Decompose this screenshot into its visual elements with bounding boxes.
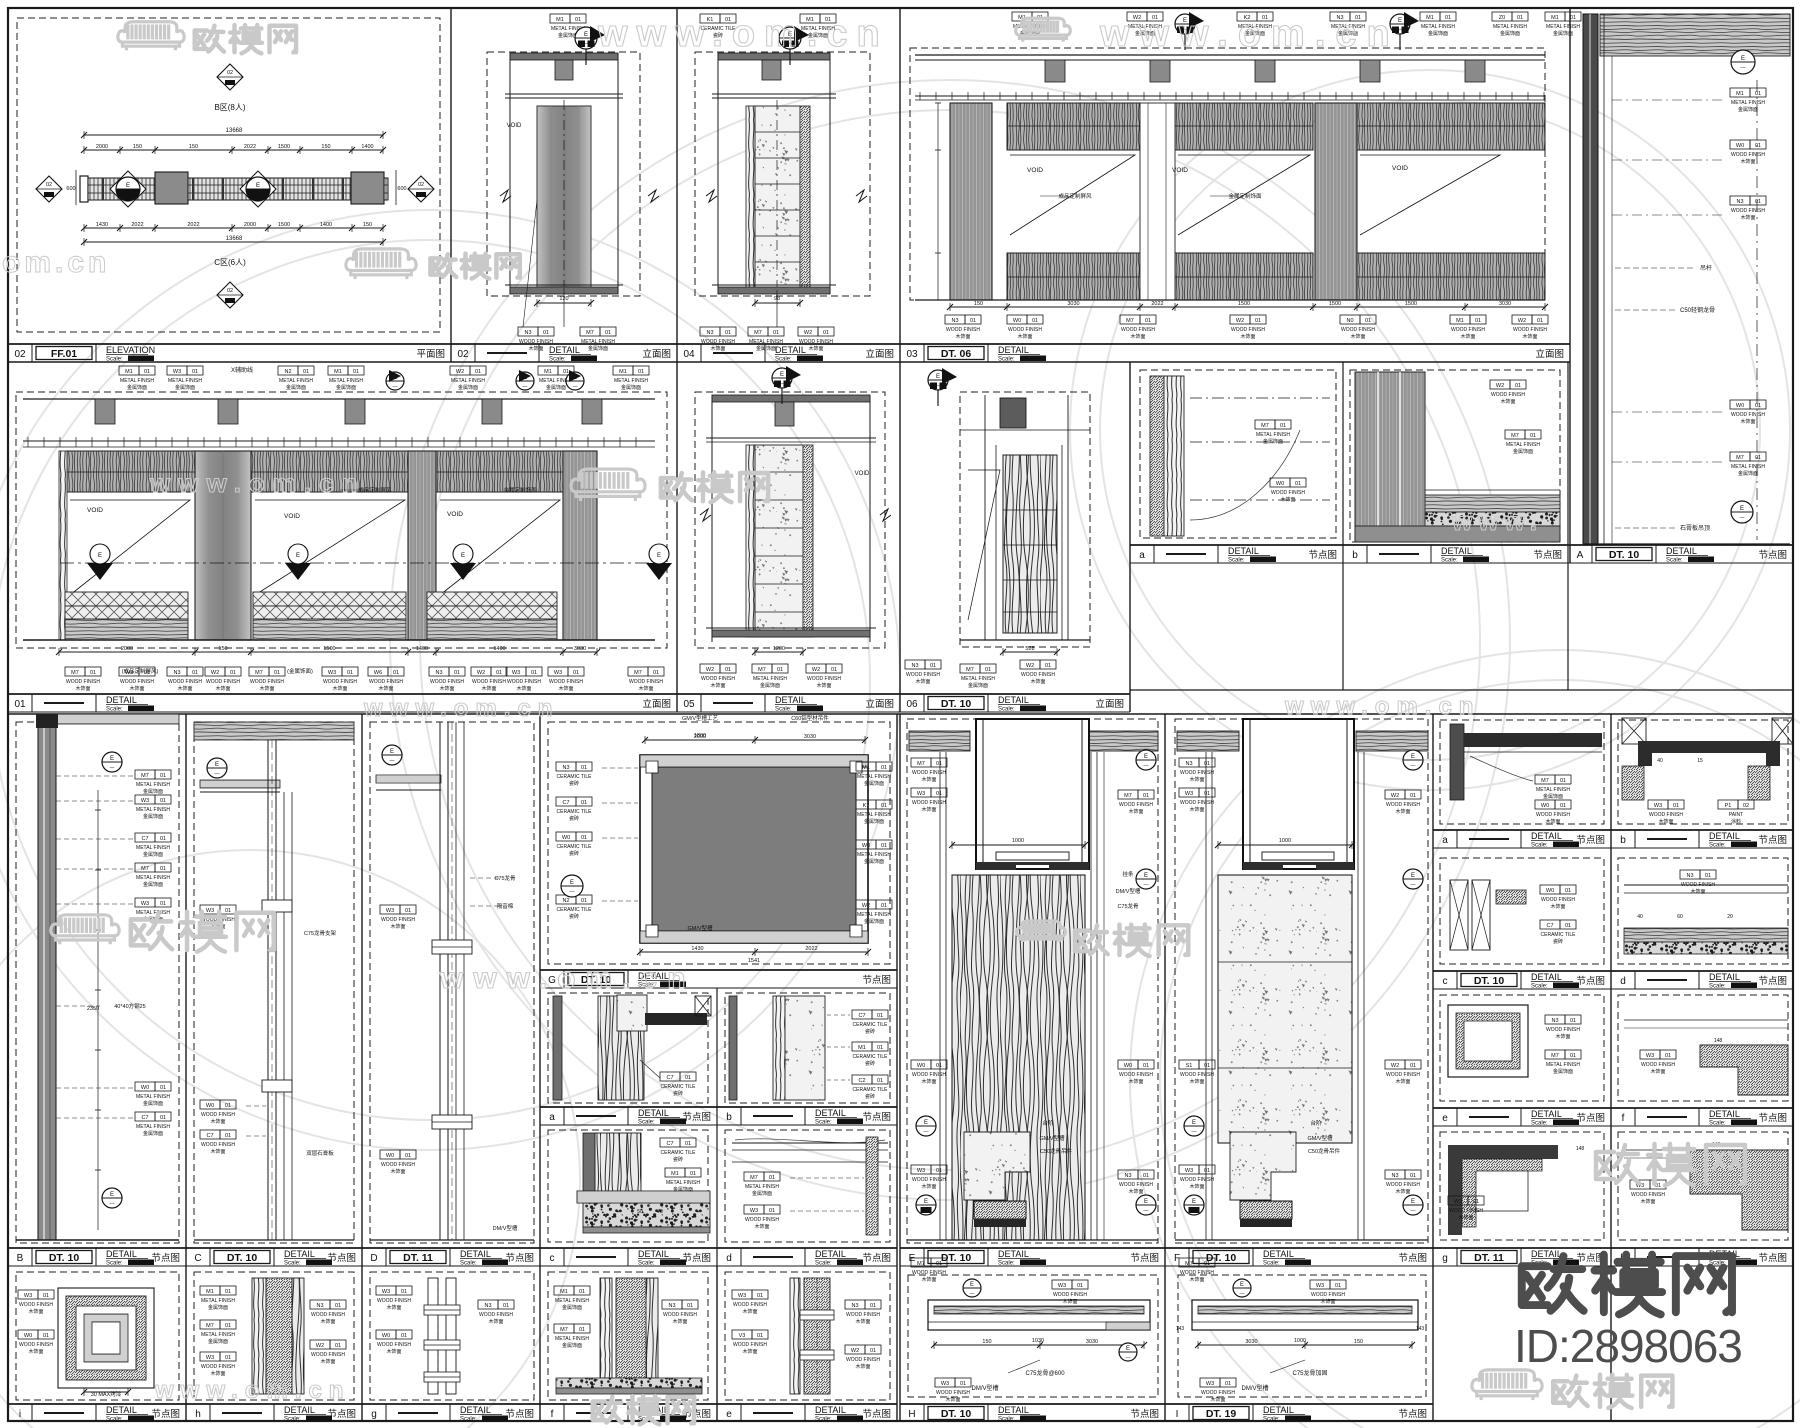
svg-text:节点图: 节点图	[1758, 550, 1787, 561]
svg-text:W0: W0	[862, 843, 870, 849]
svg-text:瓷砖: 瓷砖	[673, 1090, 683, 1097]
svg-text:METAL FINISH: METAL FINISH	[279, 378, 313, 384]
svg-text:木饰面: 木饰面	[516, 685, 531, 692]
panel f4 dashed border	[548, 1272, 708, 1400]
panel 02 dashed border	[487, 52, 640, 296]
svg-text:C7: C7	[666, 1075, 673, 1081]
svg-text:WOOD FINISH: WOOD FINISH	[799, 339, 833, 345]
svg-text:01: 01	[401, 1333, 407, 1339]
svg-text:01: 01	[1673, 803, 1679, 809]
svg-text:METAL FINISH: METAL FINISH	[136, 782, 170, 788]
svg-text:W3: W3	[141, 798, 149, 804]
svg-text:N3: N3	[851, 1303, 858, 1309]
svg-text:WOOD FINISH: WOOD FINISH	[120, 679, 154, 685]
svg-text:01: 01	[1410, 1173, 1416, 1179]
panel h stud section	[252, 1278, 266, 1394]
svg-text:木饰面: 木饰面	[390, 923, 405, 930]
svg-text:05: 05	[683, 699, 695, 710]
svg-text:节点图: 节点图	[1576, 976, 1605, 987]
svg-text:N3: N3	[1391, 1173, 1398, 1179]
svg-text:WOOD FINISH: WOOD FINISH	[745, 1217, 779, 1223]
svg-text:WOOD FINISH: WOOD FINISH	[549, 679, 583, 685]
svg-text:WOOD FINISH: WOOD FINISH	[66, 679, 100, 685]
panel F labels left	[1179, 758, 1199, 767]
svg-text:W3: W3	[917, 791, 925, 797]
panel04 ceiling lines	[712, 93, 836, 95]
svg-text:W3: W3	[750, 1208, 758, 1214]
panel E main wood grain mass	[952, 875, 1085, 1240]
svg-text:—: —	[523, 384, 528, 390]
svg-text:M1: M1	[334, 369, 342, 375]
svg-text:E: E	[1741, 56, 1745, 62]
svg-text:VOID: VOID	[87, 507, 103, 514]
svg-text:Scale:: Scale:	[638, 1261, 655, 1267]
svg-text:01: 01	[605, 330, 611, 336]
panel F bottom floor	[1175, 1239, 1428, 1241]
svg-text:节点图: 节点图	[862, 1112, 891, 1123]
svg-text:d: d	[726, 1253, 732, 1264]
svg-text:木饰面: 木饰面	[742, 1348, 757, 1355]
svg-text:E: E	[1144, 1199, 1148, 1205]
panel02 break marks	[500, 190, 511, 202]
panel E top wood strips	[909, 731, 970, 751]
panel05 terrazzo column	[755, 445, 803, 637]
panel E labels right	[1118, 790, 1138, 799]
svg-text:01: 01	[936, 761, 942, 767]
panel04 hatch strip right	[800, 106, 810, 290]
panel g4 dashed border	[370, 1272, 534, 1400]
svg-text:N3: N3	[435, 670, 442, 676]
svg-text:—: —	[1192, 1129, 1197, 1135]
svg-text:M7: M7	[1124, 793, 1132, 799]
panel F bottom skirting	[1230, 1132, 1296, 1200]
panel b mid gray bar	[729, 996, 737, 1100]
svg-text:1500: 1500	[1329, 301, 1341, 307]
svg-text:DETAIL: DETAIL	[815, 1405, 846, 1415]
panel G outer square	[640, 755, 868, 943]
grid r4 h labels	[1630, 1180, 1650, 1189]
grid r1 b x-box right	[1772, 718, 1793, 744]
panel A inner vertical line	[1603, 14, 1605, 544]
panel d mid dashed border	[725, 1130, 890, 1242]
plan circle symbol 1	[110, 171, 146, 207]
svg-text:木饰面: 木饰面	[1128, 1078, 1143, 1085]
svg-text:木饰面: 木饰面	[1062, 1298, 1077, 1305]
svg-text:DETAIL: DETAIL	[775, 695, 806, 705]
svg-text:—: —	[1411, 763, 1416, 769]
panel G right labels	[856, 762, 876, 771]
watermark sofa row3 mid	[1017, 921, 1066, 942]
panel I dims	[1198, 1344, 1412, 1346]
svg-text:S1: S1	[1186, 1063, 1193, 1069]
panel C bottom	[194, 1239, 354, 1241]
panel A circle symbol	[1731, 50, 1755, 74]
svg-text:01: 01	[1537, 318, 1543, 324]
svg-text:METAL FINISH: METAL FINISH	[581, 339, 615, 345]
panel F labels right	[1385, 790, 1405, 799]
svg-text:DT. 10: DT. 10	[941, 1408, 972, 1420]
panel B circle	[102, 752, 122, 772]
svg-text:METAL FINISH: METAL FINISH	[1256, 432, 1290, 438]
svg-text:METAL FINISH: METAL FINISH	[1421, 24, 1455, 30]
watermark sofa row1 right	[1016, 18, 1071, 42]
svg-text:瓷砖: 瓷砖	[569, 815, 579, 822]
svg-text:DT. 19: DT. 19	[1206, 1408, 1237, 1420]
watermark sofa top-left	[118, 22, 184, 51]
svg-text:W2: W2	[316, 1343, 324, 1349]
svg-text:N3: N3	[951, 318, 958, 324]
svg-text:W2: W2	[851, 1348, 859, 1354]
svg-text:WOOD FINISH: WOOD FINISH	[1386, 802, 1420, 808]
svg-text:01: 01	[454, 670, 460, 676]
row3 right grid titles r2	[1433, 970, 1611, 972]
svg-text:01: 01	[1143, 1173, 1149, 1179]
svg-text:木饰面: 木饰面	[915, 678, 930, 685]
svg-text:b: b	[726, 1112, 732, 1123]
svg-text:N3: N3	[911, 663, 918, 669]
panel G dashed border	[548, 722, 890, 964]
svg-text:W3: W3	[24, 1293, 32, 1299]
svg-text:www.om.cn: www.om.cn	[439, 962, 696, 995]
svg-text:B: B	[17, 1253, 24, 1264]
panel I labels	[1310, 1280, 1330, 1289]
svg-text:DETAIL: DETAIL	[1709, 972, 1740, 982]
svg-text:02: 02	[46, 182, 52, 188]
svg-text:METAL FINISH: METAL FINISH	[1731, 464, 1765, 470]
svg-text:150: 150	[189, 144, 198, 150]
svg-text:a: a	[1139, 550, 1145, 561]
svg-text:台阶: 台阶	[1042, 1119, 1054, 1127]
panel03 vertical dim left	[937, 103, 939, 300]
svg-text:2000: 2000	[96, 144, 108, 150]
panel a mid wood band	[598, 996, 644, 1100]
panel F studs	[1205, 752, 1207, 1240]
svg-text:3030: 3030	[1499, 301, 1511, 307]
svg-text:WOOD FINISH: WOOD FINISH	[663, 1312, 697, 1318]
svg-text:DETAIL: DETAIL	[284, 1249, 315, 1259]
svg-text:01: 01	[1204, 791, 1210, 797]
svg-text:W2: W2	[862, 903, 870, 909]
svg-text:WOOD FINISH: WOOD FINISH	[1119, 1072, 1153, 1078]
svg-text:W0: W0	[1546, 888, 1554, 894]
watermark omw bottom center	[593, 1396, 694, 1424]
svg-text:01: 01	[225, 1355, 231, 1361]
svg-text:C75龙骨加固: C75龙骨加固	[1292, 1369, 1327, 1377]
svg-text:01: 01	[160, 798, 166, 804]
svg-text:DETAIL: DETAIL	[775, 345, 806, 355]
panel04 break marks	[706, 190, 717, 202]
svg-text:N3: N3	[668, 1303, 675, 1309]
svg-text:—: —	[1411, 1208, 1416, 1214]
svg-text:M1: M1	[560, 1289, 568, 1295]
svg-text:13668: 13668	[226, 128, 243, 134]
panel06 sloped leaders	[968, 470, 1000, 620]
svg-text:K7: K7	[863, 803, 870, 809]
svg-text:150: 150	[363, 222, 372, 228]
svg-text:VOID: VOID	[1172, 167, 1188, 174]
svg-text:01: 01	[877, 1013, 883, 1019]
panel03 hanging gray blocks	[1045, 60, 1065, 82]
svg-text:ID:2898063: ID:2898063	[1514, 1320, 1742, 1372]
panel a mid dark bar	[553, 996, 562, 1100]
panel a mid black band	[645, 1013, 707, 1025]
svg-text:WOOD FINISH: WOOD FINISH	[1201, 1390, 1235, 1396]
panel H shelf plan	[928, 1300, 1150, 1330]
panel02 bottom dim	[537, 302, 591, 304]
svg-text:金属饰面: 金属饰面	[286, 384, 306, 391]
svg-text:木饰面: 木饰面	[1189, 1183, 1204, 1190]
svg-text:WOOD FINISH: WOOD FINISH	[1449, 1208, 1483, 1214]
svg-text:01: 01	[877, 1045, 883, 1051]
svg-text:木饰面: 木饰面	[210, 1370, 225, 1377]
svg-text:Scale:: Scale:	[106, 357, 123, 363]
svg-text:W0: W0	[382, 1333, 390, 1339]
svg-text:a: a	[1442, 835, 1448, 846]
svg-text:C2: C2	[858, 1078, 865, 1084]
svg-text:木饰面: 木饰面	[210, 1118, 225, 1125]
svg-text:—: —	[924, 1129, 929, 1135]
svg-text:Scale:: Scale:	[1263, 1261, 1280, 1267]
svg-text:DETAIL: DETAIL	[1263, 1249, 1294, 1259]
panel01 hanging gray blocks	[95, 399, 115, 424]
svg-text:瓷砖: 瓷砖	[673, 1156, 683, 1163]
svg-text:WOOD FINISH: WOOD FINISH	[381, 1162, 415, 1168]
svg-text:www.: www.	[1451, 506, 1543, 536]
svg-text:01: 01	[1755, 455, 1761, 461]
svg-text:M7: M7	[1736, 455, 1744, 461]
panel 06 dashed border	[960, 392, 1090, 647]
svg-text:M7: M7	[758, 667, 766, 673]
panel06 floor	[960, 639, 1090, 641]
svg-text:E: E	[1411, 873, 1415, 879]
svg-text:DETAIL: DETAIL	[815, 1249, 846, 1259]
svg-text:02: 02	[227, 288, 233, 294]
svg-text:WOOD FINISH: WOOD FINISH	[1121, 327, 1155, 333]
svg-text:木饰面: 木饰面	[28, 1348, 43, 1355]
svg-text:01: 01	[230, 670, 236, 676]
svg-text:01: 01	[1475, 318, 1481, 324]
svg-text:木饰面: 木饰面	[1189, 776, 1204, 783]
grid r4 h diagonal hatch steps	[1690, 1150, 1788, 1230]
svg-text:WOOD FINISH: WOOD FINISH	[1180, 770, 1214, 776]
svg-text:06: 06	[906, 699, 918, 710]
svg-text:DT. 11: DT. 11	[403, 1252, 433, 1264]
svg-text:CERAMIC TILE: CERAMIC TILE	[661, 1084, 697, 1090]
svg-text:金属饰面: 金属饰面	[756, 345, 776, 352]
svg-text:1400: 1400	[320, 222, 332, 228]
panel06 dims	[1003, 651, 1057, 653]
svg-text:01: 01	[936, 1168, 942, 1174]
svg-text:E: E	[110, 756, 114, 762]
panel04 circle flag	[779, 27, 801, 49]
grid r2 c labels	[1540, 885, 1560, 894]
svg-text:W3: W3	[554, 670, 562, 676]
svg-text:01: 01	[936, 1261, 942, 1267]
svg-text:1500: 1500	[323, 646, 335, 652]
grid r1 a labels	[1535, 775, 1555, 784]
panel a mid labels	[660, 1072, 680, 1081]
svg-text:M7: M7	[1185, 1261, 1193, 1267]
svg-text:1000: 1000	[1012, 838, 1024, 844]
svg-text:C7: C7	[666, 1141, 673, 1147]
svg-text:平面图: 平面图	[416, 349, 445, 360]
svg-text:E: E	[780, 372, 784, 378]
svg-text:—: —	[573, 384, 578, 390]
svg-text:DT. 10: DT. 10	[49, 1252, 80, 1264]
svg-text:节点图: 节点图	[1130, 1253, 1159, 1264]
svg-text:金属饰面: 金属饰面	[562, 1342, 582, 1349]
svg-text:WOOD FINISH: WOOD FINISH	[479, 1312, 513, 1318]
svg-text:金属饰面: 金属饰面	[208, 1304, 228, 1311]
svg-text:DETAIL: DETAIL	[1709, 831, 1740, 841]
svg-text:瓷砖: 瓷砖	[1553, 938, 1563, 945]
svg-text:木饰面: 木饰面	[1640, 1198, 1655, 1205]
svg-text:METAL FINISH: METAL FINISH	[857, 774, 891, 780]
svg-text:01: 01	[870, 1348, 876, 1354]
svg-text:木饰面: 木饰面	[1189, 1078, 1204, 1085]
panel01 bottom labels	[65, 667, 85, 676]
panel03 ceiling band	[915, 54, 1545, 56]
svg-text:WOOD FINISH: WOOD FINISH	[1311, 1292, 1345, 1298]
svg-text:WOOD FINISH: WOOD FINISH	[201, 1142, 235, 1148]
row4 dividers	[185, 1266, 187, 1421]
svg-text:01: 01	[1410, 793, 1416, 799]
svg-text:2022: 2022	[187, 222, 199, 228]
svg-text:W2: W2	[1391, 793, 1399, 799]
watermark omw row3 right partial	[1596, 1144, 1745, 1186]
panel A top wavy ceiling band	[1600, 14, 1790, 56]
svg-text:C75龙骨支架: C75龙骨支架	[304, 929, 337, 937]
svg-text:DETAIL: DETAIL	[106, 1249, 137, 1259]
svg-text:金属饰面: 金属饰面	[143, 881, 163, 888]
panel04 bottom dim	[755, 302, 800, 304]
svg-text:金属饰面: 金属饰面	[143, 788, 163, 795]
svg-text:瓷砖: 瓷砖	[865, 1093, 875, 1100]
svg-text:木饰面: 木饰面	[386, 1304, 401, 1311]
svg-text:Scale:: Scale:	[1531, 984, 1548, 990]
svg-text:E: E	[1144, 754, 1148, 760]
grid r2 c stud channels	[1450, 880, 1468, 950]
svg-text:M7: M7	[1511, 433, 1519, 439]
svg-text:节点图: 节点图	[1758, 976, 1787, 987]
panel03 top label boxes	[1012, 12, 1032, 21]
svg-text:金属饰面: 金属饰面	[546, 384, 566, 391]
svg-text:METAL FINISH: METAL FINISH	[1506, 442, 1540, 448]
svg-text:—: —	[110, 765, 115, 771]
svg-text:01: 01	[475, 369, 481, 375]
svg-text:M1: M1	[1456, 318, 1464, 324]
svg-text:金属饰面: 金属饰面	[621, 384, 641, 391]
svg-text:E: E	[98, 553, 102, 559]
svg-text:W0: W0	[141, 1085, 149, 1091]
svg-text:I: I	[1176, 1409, 1179, 1420]
panel A floor line	[1583, 543, 1790, 545]
panel d mid hatch bar right	[866, 1137, 878, 1235]
svg-text:ELEVATION: ELEVATION	[106, 345, 155, 355]
svg-text:C区(6人): C区(6人)	[214, 258, 246, 267]
svg-text:W0: W0	[1736, 143, 1744, 149]
svg-text:DETAIL: DETAIL	[1263, 1405, 1294, 1415]
panel01 top label boxes	[119, 366, 139, 375]
panel06 frame	[984, 395, 986, 640]
svg-text:W3: W3	[512, 670, 520, 676]
svg-text:01: 01	[579, 1327, 585, 1333]
svg-text:—: —	[1240, 1291, 1245, 1297]
svg-text:WOOD FINISH: WOOD FINISH	[1731, 412, 1765, 418]
svg-text:W3: W3	[1206, 1381, 1214, 1387]
svg-text:Scale:: Scale:	[1263, 1417, 1280, 1423]
svg-text:METAL FINISH: METAL FINISH	[1731, 100, 1765, 106]
svg-text:01: 01	[496, 670, 502, 676]
panel H dashed border	[908, 1275, 1158, 1397]
svg-text:M7: M7	[750, 1175, 758, 1181]
grid r2 c dashed border	[1440, 858, 1604, 964]
svg-text:W3: W3	[328, 670, 336, 676]
svg-text:W2: W2	[211, 670, 219, 676]
svg-text:N0: N0	[1346, 318, 1353, 324]
svg-text:WOOD FINISH: WOOD FINISH	[19, 1302, 53, 1308]
svg-text:150: 150	[218, 646, 227, 652]
svg-text:WOOD FINISH: WOOD FINISH	[701, 676, 735, 682]
svg-text:—: —	[570, 889, 575, 895]
svg-text:www.om.cn: www.om.cn	[1099, 13, 1400, 55]
panel 05 dashed border	[695, 392, 885, 648]
svg-text:DT. 06: DT. 06	[941, 348, 972, 360]
title bar a mid detail	[1130, 544, 1343, 546]
svg-text:立面图: 立面图	[865, 348, 894, 360]
svg-text:METAL FINISH: METAL FINISH	[614, 378, 648, 384]
panel D labels	[380, 905, 400, 914]
panel05 wavy strip	[746, 445, 755, 637]
svg-text:Scale:: Scale:	[998, 1417, 1015, 1423]
svg-text:01: 01	[1295, 481, 1301, 487]
svg-text:木饰面: 木饰面	[386, 1348, 401, 1355]
panel b mid speckle band	[785, 996, 825, 1100]
grid r1 a dashed border	[1440, 720, 1604, 824]
svg-text:01: 01	[90, 670, 96, 676]
svg-text:01: 01	[1204, 1261, 1210, 1267]
svg-text:W2: W2	[456, 369, 464, 375]
svg-text:01: 01	[936, 1063, 942, 1069]
svg-text:E: E	[461, 553, 465, 559]
svg-text:WOOD FINISH: WOOD FINISH	[201, 1112, 235, 1118]
svg-text:E: E	[970, 1282, 974, 1288]
svg-text:Scale:: Scale:	[284, 1417, 301, 1423]
svg-text:METAL FINISH: METAL FINISH	[555, 1336, 589, 1342]
panel c mid wood band	[595, 1133, 641, 1191]
svg-text:01: 01	[575, 17, 581, 23]
svg-text:N3: N3	[706, 330, 713, 336]
svg-text:2350: 2350	[87, 1006, 99, 1012]
svg-text:01: 01	[160, 866, 166, 872]
panel01 ceiling top line	[23, 398, 655, 400]
svg-text:M7: M7	[966, 667, 974, 673]
svg-text:01: 01	[563, 369, 569, 375]
svg-text:METAL FINISH: METAL FINISH	[857, 812, 891, 818]
svg-text:W2: W2	[477, 670, 485, 676]
svg-text:B区(8人): B区(8人)	[214, 103, 245, 112]
svg-text:M7: M7	[917, 1261, 925, 1267]
panel G bottom rail	[640, 931, 868, 943]
panel b row2 dashed border	[1350, 370, 1560, 542]
svg-text:WOOD FINISH: WOOD FINISH	[912, 770, 946, 776]
svg-text:WOOD FINISH: WOOD FINISH	[206, 679, 240, 685]
svg-text:13668: 13668	[226, 236, 243, 242]
panel c mid labels	[660, 1138, 680, 1147]
svg-text:METAL FINISH: METAL FINISH	[753, 676, 787, 682]
svg-text:01: 01	[303, 369, 309, 375]
svg-text:i: i	[19, 1409, 21, 1420]
